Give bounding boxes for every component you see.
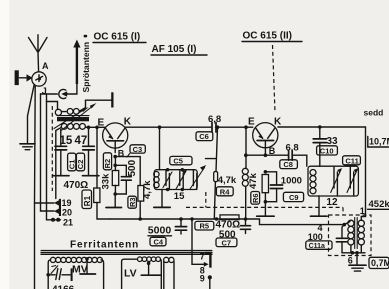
capacitor C4 (5000) [175, 219, 186, 234]
tank chassis stem and bar [154, 190, 170, 208]
svg-text:C11: C11 [345, 156, 358, 165]
junction dots on rail [138, 217, 247, 221]
boxed label R6 (vertical) [251, 192, 260, 205]
transformer bottom junctions and ground [351, 251, 359, 265]
svg-text:R2: R2 [103, 159, 112, 169]
cut-off label at bottom edge [52, 285, 75, 289]
LV coil [122, 257, 162, 289]
svg-text:4,7k: 4,7k [218, 175, 237, 186]
svg-text:500: 500 [127, 159, 138, 176]
svg-text:R6: R6 [251, 193, 260, 203]
svg-text:sedd: sedd [364, 108, 384, 118]
label OC 615 (II) [242, 31, 302, 42]
wire secondary left end down to terminal 19 bar [56, 127, 62, 198]
svg-text:Sprötantenn: Sprötantenn [81, 42, 91, 93]
value 15 (tank) [174, 191, 185, 202]
svg-text:15: 15 [60, 135, 73, 147]
LV padder capacitor [141, 262, 161, 276]
terminal 20 [54, 207, 72, 217]
svg-text:5000: 5000 [148, 225, 172, 237]
svg-text:4,7k: 4,7k [142, 180, 153, 199]
svg-text:21: 21 [63, 218, 73, 228]
value 47 [75, 135, 88, 147]
collector rail T2 to right edge [278, 127, 366, 217]
stray mark [84, 35, 88, 38]
label MV [72, 264, 88, 276]
svg-text:9: 9 [200, 274, 205, 284]
IF output transformer [342, 217, 365, 253]
wire down to terminal 21 [47, 102, 61, 220]
svg-text:1000: 1000 [281, 176, 302, 187]
trimmer capacitor 2 (15) in tank [176, 170, 187, 190]
svg-text:LV: LV [124, 268, 137, 280]
boxed label R1 (vertical) [82, 190, 92, 209]
boxed label R5 [195, 221, 214, 230]
value 4,7k (vertical) [142, 180, 153, 199]
svg-text:C5: C5 [173, 157, 183, 166]
input transformer L1 primary ring terminal [55, 109, 61, 115]
text sedd [364, 108, 384, 118]
plug connector C [41, 89, 68, 98]
svg-text:R1: R1 [83, 195, 92, 206]
resistor R6 body [257, 153, 274, 216]
boxed label C9 [283, 192, 303, 202]
AFC line node on rail [206, 125, 220, 171]
dashed box IF output transformer [329, 215, 372, 256]
boxed label C2 (vertical) [76, 153, 85, 171]
capacitor C9 (1000) [265, 172, 282, 202]
svg-text:C1: C1 [67, 160, 76, 170]
svg-text:10,7M: 10,7M [369, 137, 389, 147]
node R2/C3 bottom junction and chassis [106, 192, 122, 207]
svg-text:C7: C7 [222, 238, 232, 247]
svg-text:E: E [248, 116, 255, 127]
IF trimmer capacitor mid [331, 166, 343, 196]
label 12 [326, 197, 338, 208]
oscillator tank outline [154, 170, 197, 190]
svg-text:C11a: C11a [309, 243, 325, 250]
wire antenna circle down left bundle to bottom [34, 86, 37, 289]
svg-text:6: 6 [348, 256, 353, 266]
label B (T2) [269, 146, 276, 156]
pin label 4 [318, 223, 323, 233]
boxed label C6 [196, 132, 213, 141]
wire rail down to terminal 7/8 [192, 219, 205, 264]
svg-text:15: 15 [174, 191, 185, 202]
value 5000 [148, 225, 172, 237]
resistor R1 wire [96, 127, 98, 188]
svg-text:E: E [98, 118, 105, 129]
svg-text:C9: C9 [289, 193, 299, 202]
svg-text:R5: R5 [200, 222, 210, 231]
IF tank coil [310, 170, 316, 194]
value 470ohm [64, 180, 89, 191]
svg-text:0,7M: 0,7M [371, 258, 389, 268]
svg-text:A: A [42, 61, 49, 71]
boxed label C3 [127, 145, 145, 157]
capacitor C10 (33) [313, 125, 326, 166]
svg-text:452k: 452k [369, 199, 389, 210]
collector rail T1 to C6 [125, 126, 211, 128]
svg-text:47: 47 [75, 135, 88, 147]
label K (T2) [274, 116, 282, 127]
value 1000 [281, 176, 302, 187]
svg-text:AF 105 (I): AF 105 (I) [152, 44, 197, 55]
value 6,8 (C8) [286, 142, 299, 153]
node B1 junction [113, 155, 140, 167]
input transformer L1 core [57, 116, 89, 122]
tuning arrow 2 across transformer [61, 103, 97, 131]
boxed label R4 [216, 187, 233, 197]
boxed text 0,7M bottom right [369, 257, 389, 268]
chassis bar under C2 [83, 175, 99, 177]
wire to terminal 19 [35, 202, 55, 204]
terminal 21 [51, 218, 73, 228]
choke coil at E2 [242, 127, 248, 219]
boxed label R2 (vertical) [103, 153, 112, 170]
svg-text:R3: R3 [128, 197, 137, 207]
boxed label C8 [280, 160, 298, 169]
resistor R4 body (4,7k) [214, 172, 218, 220]
boxed label C4 [150, 237, 166, 246]
svg-text:4166: 4166 [52, 285, 75, 289]
text 10,7 M [368, 137, 389, 148]
svg-text:K: K [124, 117, 132, 128]
label E (T1) [98, 118, 105, 129]
ferrite rod [41, 250, 212, 254]
ground (IF output) [349, 265, 366, 271]
capacitor C6 (6,8) series in rail [212, 123, 253, 133]
capacitor C1 (15) [55, 130, 67, 176]
connector A (jack circle) [32, 72, 46, 86]
svg-text:C2: C2 [76, 160, 85, 170]
text 452 k [368, 199, 389, 210]
wire J to ground [28, 85, 35, 144]
input transformer L1 secondary winding [61, 124, 85, 130]
bottom supply rail [110, 219, 344, 225]
label J [42, 86, 47, 96]
LV coupling coil [164, 257, 174, 289]
svg-text:33k: 33k [101, 173, 112, 190]
input transformer L1 primary winding [61, 100, 85, 114]
wire C-plug down to terminal 20 [41, 94, 55, 211]
resistor R3 [138, 157, 144, 219]
value 6,8 (C6) [208, 114, 221, 125]
svg-text:C10: C10 [320, 146, 334, 155]
svg-text:47k: 47k [248, 172, 259, 189]
label AF 105 (I) [151, 44, 207, 55]
svg-text:C6: C6 [199, 132, 209, 141]
svg-text:12: 12 [326, 197, 338, 208]
label LV [124, 268, 137, 280]
terminal 7/8 link [200, 251, 211, 267]
boxed label C5 [170, 156, 192, 165]
svg-text:6,8: 6,8 [286, 142, 299, 153]
IF tank chassis stem and bar [311, 196, 328, 216]
capacitor C8 (6,8) [244, 151, 307, 166]
capacitor C2 (47) [83, 127, 95, 175]
pin label 6 [348, 256, 353, 266]
label E (T2) [248, 116, 255, 127]
label A [42, 61, 49, 71]
svg-text:OC 615 (I): OC 615 (I) [94, 32, 141, 43]
boxed label C7 [216, 238, 237, 247]
svg-text:Ferritantenn: Ferritantenn [70, 240, 139, 251]
node K1 rail to oscillator tank [158, 125, 162, 169]
IF tank outline [308, 166, 358, 196]
boxed label R3 (vertical) [128, 196, 137, 208]
resistor R5 body (in rail) [220, 215, 239, 220]
pin label 1 [360, 206, 365, 216]
capacitor C7 (500) [241, 219, 251, 234]
transistor T1 [103, 123, 128, 153]
resistor R1 body [94, 188, 110, 219]
trimmer capacitor 1 in tank [163, 170, 172, 190]
svg-text:C3: C3 [133, 145, 143, 154]
plug terminal into A [15, 70, 33, 85]
oscillator coil [154, 172, 159, 188]
label B (T1) [118, 148, 125, 158]
dashed gang link from FM tuning cap [186, 192, 343, 215]
svg-text:20: 20 [62, 208, 72, 218]
dipole stub terminal [86, 92, 114, 107]
resistor R2 body [112, 157, 118, 194]
capacitor C3 (500) [115, 165, 131, 194]
label K (T1) [124, 117, 132, 128]
wire primary feed [47, 94, 58, 109]
value 15 [60, 135, 73, 147]
wire secondary to E node [85, 126, 105, 130]
IF trimmer capacitor C11 [347, 166, 359, 196]
Sproetantenn arrow [67, 40, 80, 95]
value 470ohm (R5) [216, 220, 241, 231]
boxed label C1 (vertical) [67, 153, 76, 171]
ground [20, 144, 35, 150]
tuning capacitor FM in tank [190, 165, 206, 190]
svg-text:C8: C8 [283, 160, 293, 169]
MV trimmer capacitor [46, 266, 72, 281]
boxed label C11 [343, 156, 361, 166]
svg-text:6,8: 6,8 [208, 114, 221, 125]
transistor T2 [253, 123, 278, 156]
boxed label C11a [306, 241, 332, 250]
value 4,7k (R4) [218, 175, 237, 186]
value 500 (C7) [219, 229, 236, 240]
antenna symbol [29, 35, 48, 72]
node E2 [244, 125, 248, 129]
tuning arrow 1 across transformer [54, 107, 89, 128]
MV coil [48, 257, 103, 289]
svg-text:R4: R4 [220, 187, 230, 196]
value 500 (vertical) [127, 159, 138, 176]
value 100 [308, 232, 323, 242]
value 33 [327, 136, 339, 147]
value 33k (vertical) [101, 173, 112, 190]
dashed gang line left [51, 106, 53, 191]
label OC 615 (I) [93, 32, 146, 43]
svg-text:C4: C4 [154, 238, 164, 247]
dashed pointer from OC 615 (II) to transistor T2 [273, 45, 276, 112]
terminal 9 [200, 274, 212, 289]
terminal 19 [54, 198, 71, 208]
boxed label C10 [317, 146, 338, 156]
chassis bar under C1 [53, 175, 69, 177]
MV padder capacitor [80, 257, 96, 274]
label Sproetantenn (vertical) [81, 42, 91, 93]
tank junction dots [166, 168, 184, 191]
capacitor C11a (100) [336, 223, 347, 253]
svg-text:1: 1 [360, 206, 365, 216]
label Ferritantenn [70, 240, 139, 251]
svg-text:K: K [274, 116, 282, 127]
svg-text:OC 615 (II): OC 615 (II) [243, 31, 292, 42]
value 47k (vertical) [248, 172, 259, 189]
label 8 [200, 266, 205, 276]
